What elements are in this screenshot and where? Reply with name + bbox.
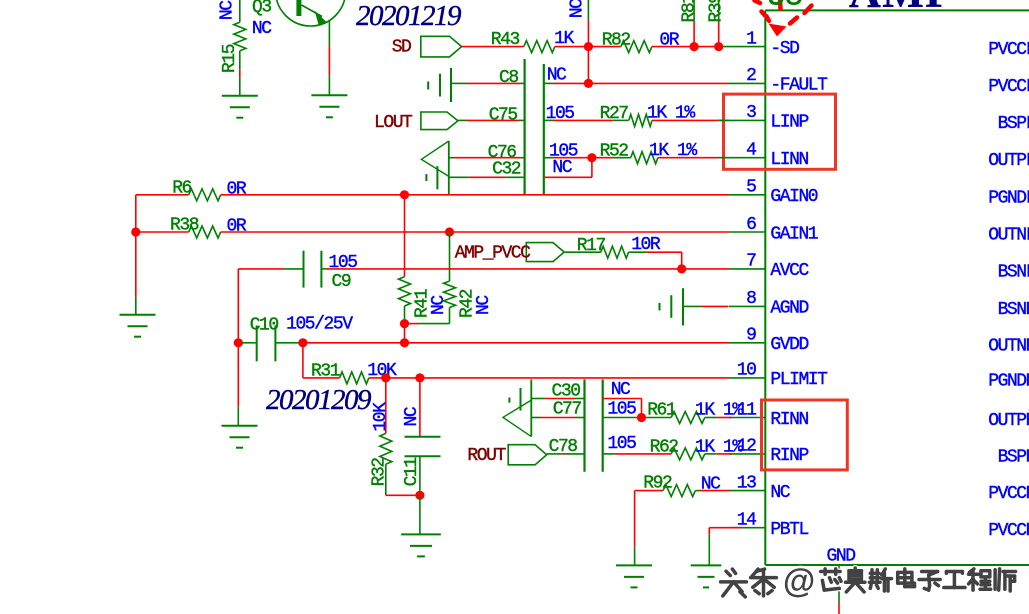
- node junction pin1-NC: [584, 42, 593, 51]
- capacitor C8 (polarized): [427, 82, 429, 90]
- ground R92: [616, 565, 652, 587]
- wire R82 to pin1: [652, 46, 723, 48]
- svg-text:C77: C77: [553, 400, 582, 420]
- svg-text:RINN: RINN: [770, 410, 808, 430]
- svg-text:8: 8: [746, 289, 756, 309]
- ground R6/R38: [120, 315, 156, 337]
- resistor R39 (cut at top): [718, 0, 720, 20]
- svg-text:0R: 0R: [659, 31, 679, 51]
- svg-text:R61: R61: [647, 401, 676, 421]
- ground C10: [222, 426, 258, 448]
- pin 2 stub: [729, 82, 765, 84]
- svg-text:OUTPR: OUTPR: [988, 411, 1029, 431]
- pin 8 stub: [729, 305, 765, 307]
- resistor R32: [385, 378, 387, 434]
- port SD: [421, 36, 462, 57]
- pin 13 stub: [729, 490, 765, 492]
- svg-text:PVCCR: PVCCR: [988, 484, 1029, 504]
- capacitor C9: [303, 251, 305, 288]
- svg-text:AVCC: AVCC: [770, 261, 809, 281]
- svg-text:Q3: Q3: [252, 0, 271, 18]
- resistor R61: [671, 412, 705, 424]
- wire NC row riser: [544, 176, 592, 178]
- svg-text:PVCCL: PVCCL: [988, 40, 1029, 60]
- wire NC riser to R61 row: [603, 398, 642, 400]
- svg-text:NC: NC: [218, 0, 238, 20]
- svg-text:PVCCR: PVCCR: [988, 521, 1029, 541]
- svg-text:2: 2: [746, 66, 756, 86]
- svg-text:BSPL: BSPL: [998, 114, 1029, 134]
- node junction R31: [298, 338, 307, 347]
- port ROUT: [508, 445, 547, 465]
- node junction R41R42 bottom: [400, 338, 409, 347]
- svg-text:7: 7: [746, 252, 756, 272]
- svg-text:ROUT: ROUT: [467, 446, 506, 466]
- wire Q3 emitter: [328, 21, 330, 46]
- node junction C11: [415, 373, 424, 382]
- wire to ground: [135, 232, 137, 297]
- wire R31 corner: [302, 343, 304, 378]
- pin 12 stub: [729, 453, 765, 455]
- node junction C11 bottom: [415, 491, 424, 500]
- svg-text:R32: R32: [370, 458, 390, 487]
- speaker/cap symbol (left channel): [421, 141, 448, 176]
- wire NC net vertical: [587, 0, 589, 20]
- resistor R38: [136, 231, 189, 233]
- svg-text:R17: R17: [577, 236, 606, 256]
- svg-text:NC: NC: [402, 406, 422, 426]
- wire R41-R42 bottom link: [405, 323, 419, 325]
- svg-text:NC: NC: [611, 380, 631, 400]
- svg-text:0R: 0R: [227, 217, 247, 237]
- pin 4 stub: [719, 157, 766, 159]
- pin 11 stub: [729, 417, 765, 419]
- wire ROUT to bank2: [547, 453, 562, 455]
- pin 9 stub: [729, 342, 765, 344]
- wire C32: [449, 176, 469, 178]
- svg-text:GAIN1: GAIN1: [770, 224, 817, 244]
- wire to R27: [544, 119, 553, 121]
- wire cap to pin8: [683, 305, 701, 307]
- svg-text:LINP: LINP: [770, 113, 808, 133]
- wire C9 row: [237, 269, 239, 343]
- wire to R52: [544, 157, 553, 159]
- svg-text:C8: C8: [499, 68, 518, 88]
- svg-text:SD: SD: [392, 38, 411, 58]
- svg-text:RINP: RINP: [770, 446, 808, 466]
- wire R32-C11 bottom link: [386, 494, 420, 496]
- svg-text:1: 1: [746, 29, 756, 49]
- wire R92 corner: [634, 491, 636, 547]
- wire C30: [531, 398, 545, 400]
- wire R52 to pin4: [658, 157, 718, 159]
- capacitor bank 2 plates right: [602, 379, 604, 471]
- node junction pin7: [677, 264, 686, 273]
- svg-text:PVCCL: PVCCL: [988, 77, 1029, 97]
- svg-text:R31: R31: [311, 362, 340, 382]
- node junction C32 riser: [587, 153, 596, 162]
- svg-text:R62: R62: [650, 438, 679, 458]
- port LOUT: [421, 112, 458, 130]
- svg-text:NC: NC: [552, 158, 572, 178]
- svg-text:R43: R43: [491, 30, 520, 50]
- wire port to R17: [564, 251, 601, 253]
- resistor R81 (cut at top): [693, 0, 695, 20]
- svg-text:R81: R81: [680, 0, 700, 23]
- resistor R92: [663, 485, 695, 497]
- watermark 头条@芯奥斯电子工程师: [721, 562, 1016, 599]
- resistor R42: [449, 232, 451, 281]
- resistor R6: [136, 194, 189, 196]
- svg-text:R39: R39: [706, 0, 726, 23]
- port AMP_PVCC: [526, 243, 564, 262]
- wire C11 to ground: [419, 495, 421, 534]
- wire R62 to pin12: [705, 453, 717, 455]
- wire R31 to pin10: [369, 377, 729, 379]
- wire LOUT to cap bank: [458, 119, 466, 121]
- svg-text:BSNL: BSNL: [998, 262, 1029, 282]
- pin 10 stub: [729, 377, 765, 379]
- svg-text:5: 5: [746, 178, 756, 198]
- svg-text:NC: NC: [252, 19, 272, 39]
- resistor R62: [671, 448, 705, 460]
- ground Q3 emitter: [311, 95, 347, 117]
- node junction R81: [690, 42, 699, 51]
- svg-text:R92: R92: [643, 474, 672, 494]
- svg-text:105/25V: 105/25V: [286, 315, 353, 335]
- svg-text:20201219: 20201219: [356, 0, 462, 32]
- node junction R41 bottom: [400, 319, 409, 328]
- svg-text:U8: U8: [767, 0, 803, 15]
- resistor R82: [621, 41, 652, 53]
- svg-text:GVDD: GVDD: [770, 335, 808, 355]
- wire bank2 to R61: [603, 417, 642, 419]
- svg-text:R27: R27: [600, 104, 629, 124]
- svg-text:4: 4: [746, 141, 756, 161]
- resistor R43: [524, 41, 555, 53]
- svg-text:@: @: [783, 562, 815, 599]
- wire R17 to pin7: [629, 251, 647, 253]
- svg-text:AMP_PVCC: AMP_PVCC: [455, 244, 531, 264]
- resistor R17: [601, 246, 629, 258]
- node junction pin2: [584, 79, 593, 88]
- node junction R39: [714, 42, 723, 51]
- svg-text:-SD: -SD: [770, 39, 799, 59]
- svg-text:LOUT: LOUT: [374, 113, 413, 133]
- svg-text:AMP: AMP: [849, 0, 954, 17]
- wire C8 to cap bank: [451, 82, 467, 84]
- svg-text:OUTNR: OUTNR: [988, 336, 1029, 356]
- node junction R38 corner: [131, 227, 140, 236]
- wire C76: [449, 157, 454, 159]
- svg-text:R38: R38: [170, 216, 199, 236]
- svg-text:13: 13: [737, 473, 756, 493]
- svg-text:LINN: LINN: [770, 150, 808, 170]
- pin 7 stub: [729, 268, 765, 270]
- resistor R52: [631, 152, 658, 164]
- pin 5 stub: [729, 194, 765, 196]
- svg-text:9: 9: [746, 326, 756, 346]
- svg-text:NC: NC: [770, 483, 790, 503]
- transistor Q3: [276, 0, 346, 26]
- svg-text:0R: 0R: [227, 180, 247, 200]
- speaker/cap symbol (right channel): [503, 400, 531, 437]
- svg-text:R82: R82: [602, 31, 631, 51]
- capacitor C10: [238, 342, 242, 344]
- wire R61 to pin11: [705, 417, 717, 419]
- ground R15: [222, 96, 258, 118]
- highlight box pins 3-4 LINP/LINN: [724, 94, 836, 169]
- svg-text:3: 3: [746, 103, 756, 123]
- resistor R31: [340, 372, 369, 384]
- svg-text:6: 6: [746, 215, 756, 235]
- svg-text:NC: NC: [701, 475, 721, 495]
- capacitor AGND (polarized): [659, 303, 661, 311]
- node junction R61: [637, 413, 646, 422]
- svg-text:105: 105: [607, 400, 636, 420]
- pin 14 stub: [729, 527, 765, 529]
- svg-text:PGNDR: PGNDR: [988, 371, 1029, 391]
- svg-text:C75: C75: [489, 105, 518, 125]
- svg-text:NC: NC: [567, 0, 587, 18]
- wire R27 to pin3: [652, 119, 718, 121]
- ground C11: [401, 534, 441, 556]
- svg-text:C11: C11: [402, 458, 422, 487]
- svg-text:PBTL: PBTL: [770, 520, 808, 540]
- svg-text:GND: GND: [827, 547, 856, 567]
- resistor R15: [239, 0, 241, 22]
- svg-text:NC: NC: [474, 295, 494, 315]
- node junction R42: [445, 227, 454, 236]
- wire R38 to pin6: [221, 231, 729, 233]
- svg-text:AGND: AGND: [770, 299, 808, 319]
- svg-text:GAIN0: GAIN0: [770, 187, 817, 207]
- op-amp U8 IC body: [765, 10, 1029, 565]
- wire R92 to pin13: [695, 490, 700, 492]
- wire bank2 to R62: [603, 453, 615, 455]
- annotation red dashed circle and arrow: [755, 1, 812, 24]
- node junction R41: [400, 190, 409, 199]
- wire to ground: [237, 343, 239, 407]
- capacitor bank 2 plates left (C30/C77/C78): [583, 379, 585, 471]
- svg-text:OUTPL: OUTPL: [988, 151, 1029, 171]
- svg-text:R52: R52: [600, 142, 629, 162]
- svg-text:R15: R15: [220, 44, 240, 73]
- wire NC row to pin2: [544, 82, 553, 84]
- svg-text:PLIMIT: PLIMIT: [770, 370, 828, 390]
- node junction C9 drop: [234, 338, 243, 347]
- resistor R41: [404, 195, 406, 277]
- svg-text:C10: C10: [250, 316, 279, 336]
- svg-text:R6: R6: [172, 179, 191, 199]
- wire R6 to pin5: [221, 194, 729, 196]
- resistor R27: [629, 114, 652, 126]
- wire R6 row left corner: [135, 195, 137, 232]
- svg-text:10K: 10K: [371, 402, 391, 432]
- wire GND pin down: [838, 565, 840, 603]
- svg-text:NC: NC: [429, 295, 449, 315]
- wire PBTL to ground: [709, 527, 741, 529]
- svg-text:C32: C32: [492, 159, 521, 179]
- svg-text:PGNDL: PGNDL: [988, 188, 1029, 208]
- capacitor bank plates (C8/C75/C76/C32) left: [523, 59, 525, 195]
- ground PBTL: [691, 565, 722, 587]
- wire SD to R43: [462, 46, 524, 48]
- svg-text:NC: NC: [547, 66, 567, 86]
- wire R43 to R82: [555, 46, 621, 48]
- wire link down to pin9 row: [404, 324, 406, 343]
- svg-text:C9: C9: [332, 272, 351, 292]
- pin 3 stub: [719, 119, 766, 121]
- svg-text:105: 105: [607, 434, 636, 454]
- wire C77: [531, 417, 540, 419]
- svg-text:10: 10: [737, 361, 756, 381]
- pin 6 stub: [729, 231, 765, 233]
- pin 1 stub: [723, 46, 766, 48]
- svg-text:BSNR: BSNR: [998, 300, 1029, 320]
- wire C10 to pin9: [275, 342, 303, 344]
- highlight box pins 11-12 RINN/RINP: [762, 400, 848, 470]
- capacitor bank plates right: [543, 64, 545, 195]
- svg-text:BSPR: BSPR: [998, 447, 1029, 467]
- capacitor C11: [419, 378, 421, 437]
- svg-text:105: 105: [329, 253, 358, 273]
- svg-text:20201209: 20201209: [266, 384, 372, 416]
- svg-text:OUTNL: OUTNL: [988, 226, 1029, 246]
- node junction R32: [381, 373, 390, 382]
